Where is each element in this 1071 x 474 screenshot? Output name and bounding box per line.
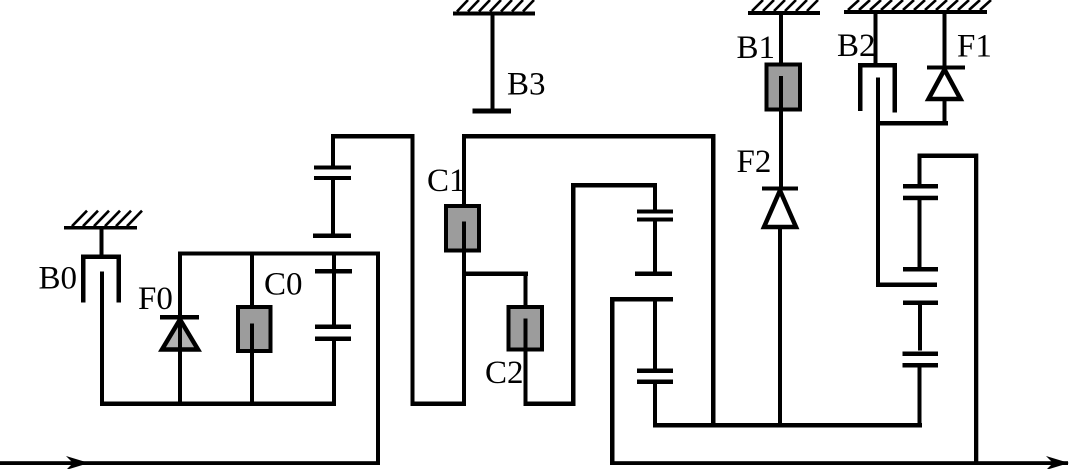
svg-text:C1: C1 (427, 163, 466, 199)
svg-text:B1: B1 (737, 30, 776, 66)
svg-text:B2: B2 (837, 28, 876, 64)
svg-text:C2: C2 (485, 355, 524, 391)
svg-text:B3: B3 (507, 67, 546, 103)
svg-text:B0: B0 (39, 261, 78, 297)
svg-text:F1: F1 (957, 29, 992, 65)
svg-text:F0: F0 (138, 281, 173, 317)
svg-text:F2: F2 (737, 144, 772, 180)
svg-text:C0: C0 (264, 267, 303, 303)
